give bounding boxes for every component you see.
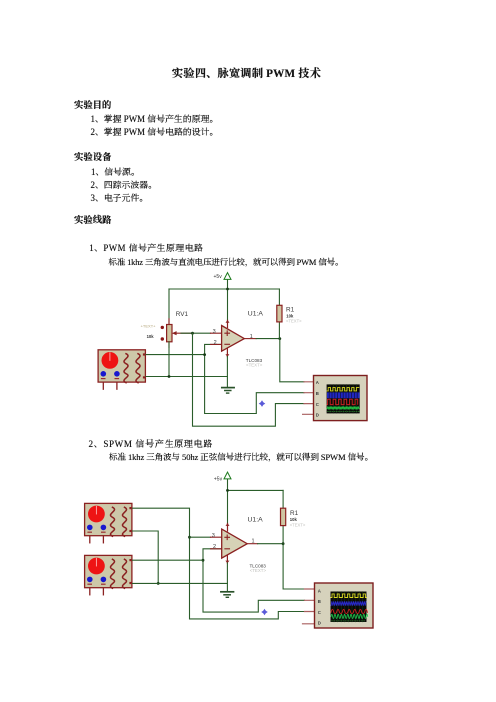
op-amp U1:A (circuit 2) xyxy=(211,517,267,574)
wire G3 top terminal xyxy=(133,559,204,561)
svg-text:+5v: +5v xyxy=(214,274,223,280)
svg-text:U1:A: U1:A xyxy=(248,517,264,524)
svg-text:C: C xyxy=(316,402,319,407)
svg-text:R1: R1 xyxy=(290,510,299,517)
wire op-amp pin2 net down to scope B xyxy=(205,344,304,413)
ground xyxy=(222,388,234,394)
wire RV1 wiper to op-amp pin3 xyxy=(181,332,211,334)
op-amp U1:A xyxy=(211,311,264,368)
svg-text:10k: 10k xyxy=(290,517,298,522)
node: pin3 junction xyxy=(188,536,191,539)
+5V power rail wire xyxy=(169,288,279,290)
wire output pin1 to node xyxy=(247,543,257,545)
svg-text:R1: R1 xyxy=(286,306,295,313)
svg-text:A: A xyxy=(318,588,321,593)
svg-text:<TEXT>: <TEXT> xyxy=(246,363,263,368)
wire output node to scope A xyxy=(283,544,304,589)
svg-text:C: C xyxy=(318,610,321,615)
signal generator G1 xyxy=(98,350,145,389)
scope1 trace C red pulses xyxy=(327,399,358,404)
+5v power symbol xyxy=(214,472,231,523)
scope2 trace D green sine xyxy=(331,614,368,618)
node: output / R1 junction xyxy=(278,337,281,340)
svg-text:3: 3 xyxy=(212,533,215,539)
svg-text:<TEXT>: <TEXT> xyxy=(250,568,267,573)
svg-text:A: A xyxy=(316,380,319,385)
scope1 trace D green sine xyxy=(327,407,359,409)
node: pin2 / G1 junction xyxy=(203,353,206,356)
wire G1 bottom terminal to ground xyxy=(146,376,227,378)
node: G3 / pin2 junction xyxy=(202,559,205,562)
resistor R1 xyxy=(277,305,302,338)
svg-text:RV1: RV1 xyxy=(176,311,189,318)
svg-text:10k: 10k xyxy=(147,334,155,339)
+5v power symbol xyxy=(214,273,232,321)
wire G2 bottom to ground net xyxy=(133,531,159,583)
svg-text:B: B xyxy=(316,391,319,396)
svg-text:B: B xyxy=(318,599,321,604)
scope2 trace A yellow square xyxy=(331,594,366,598)
node: RV1/ground junction xyxy=(168,375,171,378)
document text xyxy=(172,69,321,80)
ground vertical wire xyxy=(226,563,228,592)
wire rail right down to R1 top xyxy=(278,289,280,305)
wire output node down to scope A xyxy=(280,339,304,382)
+5V rail wire xyxy=(228,489,284,491)
potentiometer RV1 xyxy=(141,311,192,347)
node A: wiper junction xyxy=(191,332,194,335)
svg-text:+TEXT+: +TEXT+ xyxy=(141,324,157,329)
wire G3 top net: pin2 and down to scope B xyxy=(203,549,305,612)
oscilloscope 2 xyxy=(303,583,374,628)
svg-text:+5v: +5v xyxy=(214,477,223,483)
wire pin3 xyxy=(190,536,211,538)
wire rail down to R1 xyxy=(282,490,284,508)
scope2 baseline dots xyxy=(332,620,365,622)
svg-text:<TEXT>: <TEXT> xyxy=(290,523,306,528)
wire op-amp output pin1 xyxy=(244,338,256,340)
resistor R1 (circuit 2) xyxy=(281,508,306,544)
scope2 trace B blue triangle xyxy=(331,601,366,605)
wire RV1 bottom to ground net xyxy=(168,342,170,377)
svg-text:D: D xyxy=(318,621,321,626)
ground (circuit 2) xyxy=(221,592,234,598)
oscilloscope 1 xyxy=(303,376,367,421)
scope1 baseline dots xyxy=(328,411,360,413)
svg-text:2: 2 xyxy=(213,544,216,550)
ground vertical wire xyxy=(226,357,228,388)
svg-text:3: 3 xyxy=(213,329,216,335)
wire wiper node down and to scope C xyxy=(193,333,305,426)
svg-text:U1:A: U1:A xyxy=(248,311,264,318)
scope1 trace A yellow square xyxy=(327,388,359,391)
node: +5v junction xyxy=(226,489,229,492)
svg-text:D: D xyxy=(316,413,319,418)
voltage probe (circuit 2) xyxy=(261,609,268,616)
wire G2 top to op-amp pin3 net xyxy=(133,508,305,619)
voltage probe xyxy=(259,400,266,407)
scope1 trace B blue dense xyxy=(327,392,360,398)
node: output / R1 junction xyxy=(282,542,285,545)
node: +5V junction on rail xyxy=(226,288,229,291)
signal generator G3 xyxy=(85,555,132,594)
svg-text:<TEXT>: <TEXT> xyxy=(286,319,302,324)
wire rail left down to RV1 xyxy=(168,289,170,325)
scope2 trace C red sine xyxy=(331,609,367,613)
wire G3 bottom to ground xyxy=(133,582,228,584)
wire G1 top terminal to inverting net xyxy=(146,354,205,356)
signal generator G2 xyxy=(85,503,132,542)
node: ground net junction xyxy=(157,582,160,585)
svg-text:2: 2 xyxy=(214,340,217,346)
